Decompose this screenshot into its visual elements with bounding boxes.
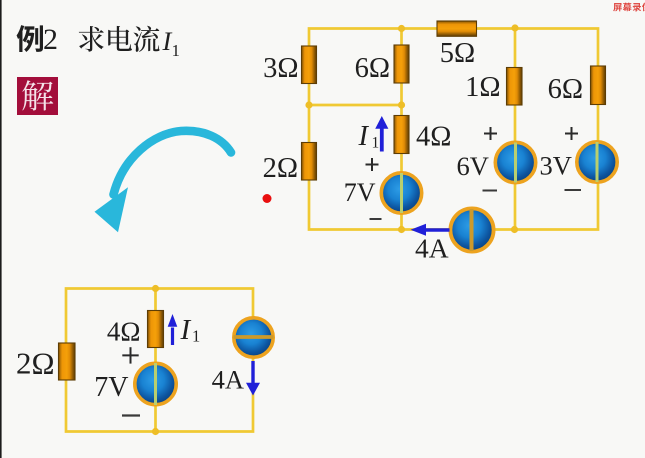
svg-text:6Ω: 6Ω: [548, 74, 583, 105]
node junction top of 1ohm branch: [511, 24, 518, 31]
voltage source 3V: [577, 142, 617, 182]
voltage source 7V top: [381, 173, 421, 213]
current arrow I1 top: [375, 116, 388, 152]
svg-text:4A: 4A: [415, 233, 449, 264]
voltage source 6V: [495, 142, 535, 182]
svg-text:1: 1: [172, 41, 181, 60]
svg-text:5Ω: 5Ω: [440, 38, 475, 69]
svg-text:6Ω: 6Ω: [355, 53, 390, 84]
current source 4A bottom: [234, 318, 274, 357]
node junction bottom of middle branch: [398, 226, 405, 233]
svg-text:1: 1: [372, 135, 380, 152]
current source 4A top: [450, 208, 493, 251]
svg-text:6V: 6V: [457, 151, 489, 181]
node junction bottom of bottom-circuit middle branch: [152, 428, 159, 435]
resistor 2ohm top-circuit: [302, 143, 317, 181]
plus sign 6V: [484, 127, 497, 140]
node junction left inner: [305, 101, 312, 108]
resistor 6ohm left: [394, 45, 409, 83]
minus sign 6V: [483, 190, 498, 192]
plus sign 7V bottom: [122, 347, 138, 363]
wire inner horizontal: [309, 104, 402, 107]
wire branch (1ohm/6V): [514, 28, 517, 230]
wire bottom circuit middle branch: [154, 289, 157, 432]
node junction middle inner: [398, 101, 405, 108]
minus sign 7V bottom: [122, 414, 140, 416]
wire middle branch (6ohm/4ohm/7V): [400, 29, 403, 230]
svg-text:3Ω: 3Ω: [263, 53, 298, 84]
solution box 解: [17, 77, 58, 115]
minus sign 3V: [565, 189, 582, 191]
resistor 1ohm: [507, 68, 523, 106]
resistor 6ohm right: [591, 66, 606, 105]
label I1 bottom: [180, 314, 201, 346]
red watermark: [613, 3, 645, 12]
left frame edge: [0, 0, 2, 458]
svg-text:2Ω: 2Ω: [16, 346, 55, 381]
current arrow 4A bottom (pointing down): [246, 361, 260, 396]
wire top circuit outer loop: [309, 29, 598, 230]
svg-text:I: I: [180, 314, 192, 346]
resistor 2ohm bottom-circuit: [59, 343, 76, 380]
svg-text:4Ω: 4Ω: [416, 122, 451, 153]
svg-text:3V: 3V: [540, 151, 572, 181]
svg-text:7V: 7V: [94, 372, 128, 403]
svg-text:4A: 4A: [212, 365, 244, 395]
minus sign 7V top: [370, 218, 382, 220]
node junction top of middle branch: [398, 25, 405, 32]
red dot marker: [263, 194, 272, 203]
node junction bottom of 6V branch: [511, 226, 518, 233]
resistor 4ohm top-circuit: [394, 116, 409, 154]
current arrow 4A top (pointing left): [411, 224, 450, 236]
node junction top of bottom-circuit middle branch: [152, 285, 159, 292]
svg-text:1: 1: [192, 327, 200, 346]
svg-text:2: 2: [43, 23, 58, 56]
svg-text:2Ω: 2Ω: [263, 153, 298, 184]
current arrow I1 bottom: [168, 314, 178, 345]
plus sign 7V top: [366, 158, 379, 171]
voltage source 7V bottom: [135, 363, 176, 405]
cyan transform arrow: [95, 131, 232, 232]
resistor 4ohm bottom-circuit: [148, 311, 164, 348]
plus sign 3V: [565, 127, 578, 140]
label I1 top: [358, 121, 380, 152]
svg-text:1Ω: 1Ω: [465, 72, 500, 103]
resistor 3ohm: [302, 46, 317, 84]
wire bottom circuit outer loop: [66, 289, 253, 432]
svg-text:7V: 7V: [344, 178, 376, 207]
svg-text:I: I: [358, 121, 370, 152]
resistor 5ohm: [437, 21, 477, 36]
svg-text:4Ω: 4Ω: [107, 317, 141, 347]
title 例2 求电流I1: [17, 23, 180, 60]
